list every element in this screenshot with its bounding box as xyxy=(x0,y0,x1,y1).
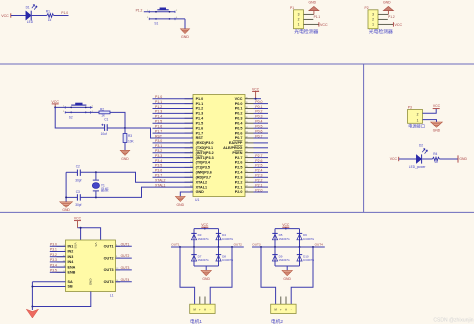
svg-text:P1.2: P1.2 xyxy=(155,105,162,109)
svg-text:U1: U1 xyxy=(195,198,199,202)
power port GND (power LED) xyxy=(458,155,467,162)
resistor R2 1k xyxy=(99,107,110,117)
svg-text:1N4007G: 1N4007G xyxy=(279,237,290,241)
node mid rail junctions xyxy=(179,246,233,248)
svg-text:P3.1: P3.1 xyxy=(50,248,57,252)
svg-text:P0.0: P0.0 xyxy=(235,102,243,106)
svg-text:P3.5: P3.5 xyxy=(50,269,57,273)
svg-text:IN4: IN4 xyxy=(68,260,75,264)
svg-text:P1.2: P1.2 xyxy=(388,15,395,19)
svg-text:电源接口: 电源接口 xyxy=(408,122,425,129)
svg-text:-: - xyxy=(291,309,292,312)
svg-text:ENA: ENA xyxy=(68,265,76,269)
connector P3 (power input, 2-pin) xyxy=(408,106,423,124)
node VSS junction xyxy=(80,227,82,229)
svg-text:VCC: VCC xyxy=(252,87,260,91)
svg-text:(T0)P3.4: (T0)P3.4 xyxy=(196,161,211,165)
svg-text:1: 1 xyxy=(417,119,419,123)
wire P3 pin2 to VCC xyxy=(423,109,437,114)
resistor R1 1k xyxy=(46,9,54,22)
power port GND (P2 pin3, arrow up) xyxy=(383,1,393,15)
wire bottom rail to ground xyxy=(286,266,288,270)
svg-text:电机1: 电机1 xyxy=(190,318,202,324)
diode D6 1N4007G xyxy=(297,233,314,241)
diode D4 1N4007G xyxy=(216,233,233,241)
svg-text:SB: SB xyxy=(68,285,73,289)
svg-text:VCC: VCC xyxy=(1,14,9,18)
svg-text:P0.4: P0.4 xyxy=(255,120,262,124)
svg-text:(INT1)P3.3: (INT1)P3.3 xyxy=(196,156,214,160)
svg-text:P3.0: P3.0 xyxy=(50,243,57,247)
svg-text:P2.1: P2.1 xyxy=(255,183,262,187)
wire left rail to C3 xyxy=(66,196,77,198)
svg-text:P1.6: P1.6 xyxy=(155,125,162,129)
diode D3 1N4007G xyxy=(191,233,208,241)
wire junction to RST pin xyxy=(125,128,193,138)
svg-text:(RD)P3.7: (RD)P3.7 xyxy=(196,176,211,180)
node RST junction xyxy=(124,127,126,129)
svg-text:P2.0: P2.0 xyxy=(235,190,243,194)
ground GND (crystal) xyxy=(60,202,73,212)
node crystal top junction xyxy=(95,171,97,173)
svg-text:光电检测器: 光电检测器 xyxy=(369,28,393,35)
svg-text:VSS: VSS xyxy=(74,243,78,249)
svg-text:GND: GND xyxy=(309,1,317,5)
svg-text:P3: P3 xyxy=(408,106,412,110)
svg-text:P1.7: P1.7 xyxy=(196,131,204,135)
svg-text:D2: D2 xyxy=(419,144,423,148)
svg-text:P0.3: P0.3 xyxy=(235,117,243,121)
diode D9 1N4007G xyxy=(272,254,289,262)
svg-text:P2.2: P2.2 xyxy=(235,180,243,184)
diode D5 1N4007G xyxy=(272,233,289,241)
wire C1 to RC junction xyxy=(108,127,126,129)
svg-text:P2.2: P2.2 xyxy=(255,179,262,183)
power port VCC (P3) xyxy=(433,104,441,108)
svg-text:P0.6: P0.6 xyxy=(235,131,243,135)
wire R4 to GND port xyxy=(439,158,458,160)
wire VCC to D1 anode xyxy=(11,15,26,17)
svg-text:GND: GND xyxy=(433,128,441,132)
svg-text:SA: SA xyxy=(68,280,73,284)
power port VCC (motor2 bridge) xyxy=(282,223,290,229)
wire P1.2 to S1 pin1 row xyxy=(144,11,175,13)
svg-text:D7: D7 xyxy=(198,254,202,258)
svg-text:ALE/PROG: ALE/PROG xyxy=(223,146,242,150)
svg-text:VCC: VCC xyxy=(235,97,243,101)
wire OUT2 down to motor connector xyxy=(210,247,232,304)
svg-text:IN3: IN3 xyxy=(68,255,74,259)
svg-text:P2.7: P2.7 xyxy=(235,156,243,160)
wire VCC to VS/VSS pins xyxy=(78,228,101,240)
node SB junction xyxy=(31,286,33,288)
svg-text:VCC: VCC xyxy=(74,217,82,221)
svg-text:P0.3: P0.3 xyxy=(255,115,262,119)
power port VCC (L298) xyxy=(74,217,82,228)
svg-text:P3.4: P3.4 xyxy=(50,263,57,267)
svg-text:P1.1: P1.1 xyxy=(196,102,204,106)
svg-text:P2.6: P2.6 xyxy=(255,159,262,163)
svg-text:P1.4: P1.4 xyxy=(196,117,205,121)
svg-text:30pf: 30pf xyxy=(75,203,81,207)
svg-text:VCC: VCC xyxy=(201,223,209,227)
svg-text:P0.1: P0.1 xyxy=(255,105,262,109)
L1 output pin stubs xyxy=(116,246,121,281)
svg-text:OUT3: OUT3 xyxy=(252,243,261,247)
wire L1 GND pin down xyxy=(32,292,90,307)
connector P2 (3-pin header) xyxy=(365,6,394,29)
diode D10 1N4007G xyxy=(297,254,314,262)
svg-text:D10: D10 xyxy=(303,254,309,258)
svg-text:PSEN: PSEN xyxy=(232,151,242,155)
ic U1 AT89C51 MCU body xyxy=(193,95,245,203)
SECTION-DIVIDERS xyxy=(0,64,474,212)
svg-text:C3: C3 xyxy=(76,190,80,194)
svg-text:P0.5: P0.5 xyxy=(255,125,262,129)
svg-text:OUT4: OUT4 xyxy=(315,243,324,247)
L1 output pin numbers xyxy=(116,244,119,282)
svg-text:VS: VS xyxy=(94,243,98,247)
svg-text:L1: L1 xyxy=(110,294,114,298)
svg-text:VCC: VCC xyxy=(282,223,290,227)
svg-text:OUT4: OUT4 xyxy=(121,278,130,282)
wire VCC to D2 xyxy=(399,158,416,160)
wire C2 to XTAL2 xyxy=(81,172,193,182)
svg-text:GND: GND xyxy=(459,157,467,161)
svg-text:P2.5: P2.5 xyxy=(255,164,262,168)
svg-text:D6: D6 xyxy=(303,233,307,237)
U1 right net wires xyxy=(254,99,269,192)
power port VCC (U1 pin40) xyxy=(252,87,260,99)
capacitor C3 30pf xyxy=(75,190,81,207)
svg-text:EA/VPP: EA/VPP xyxy=(229,141,243,145)
svg-text:-: - xyxy=(210,309,211,312)
svg-text:10uf: 10uf xyxy=(101,132,107,136)
node rail-C3 junction xyxy=(65,196,67,198)
svg-text:CSDN @zhixunjin: CSDN @zhixunjin xyxy=(433,318,473,324)
svg-text:1N4007G: 1N4007G xyxy=(222,237,233,241)
resistor R4 1k xyxy=(433,152,440,164)
svg-text:2: 2 xyxy=(372,18,374,22)
wire right branch xyxy=(299,229,301,247)
capacitor C2 30pf xyxy=(75,164,81,182)
power port VCC (P2 pin1) xyxy=(393,22,402,27)
svg-text:OUT2: OUT2 xyxy=(104,256,114,260)
svg-text:P3.3: P3.3 xyxy=(155,154,162,158)
wire right branch lower xyxy=(299,247,301,266)
svg-text:OUT4: OUT4 xyxy=(104,280,115,284)
svg-text:(INT0)P3.2: (INT0)P3.2 xyxy=(196,151,214,155)
svg-text:P1.1: P1.1 xyxy=(314,15,321,19)
svg-text:P0.2: P0.2 xyxy=(235,112,243,116)
svg-text:S1: S1 xyxy=(154,21,158,25)
svg-text:3: 3 xyxy=(372,13,374,17)
wire bottom rail to ground xyxy=(205,266,207,270)
svg-text:P2.4: P2.4 xyxy=(255,169,262,173)
svg-text:P3.5: P3.5 xyxy=(155,164,162,168)
svg-text:P3.2: P3.2 xyxy=(155,149,162,153)
svg-text:P3.4: P3.4 xyxy=(155,159,162,163)
diode D7 1N4007G xyxy=(191,254,208,262)
svg-text:P3.0: P3.0 xyxy=(155,139,162,143)
ground GND (motor2 bridge) xyxy=(282,270,292,280)
svg-text:GND: GND xyxy=(62,208,70,212)
svg-text:C1: C1 xyxy=(104,118,108,122)
wire bridge top rail xyxy=(194,228,219,230)
svg-text:P0.6: P0.6 xyxy=(255,129,262,133)
svg-text:P1.5: P1.5 xyxy=(196,121,204,125)
svg-text:GND: GND xyxy=(202,277,210,281)
svg-text:OUT3: OUT3 xyxy=(104,268,114,272)
wire SB to sense loop xyxy=(32,286,65,288)
svg-text:GND: GND xyxy=(121,157,129,161)
svg-text:VCC: VCC xyxy=(395,23,403,27)
connector P1 (3-pin header) xyxy=(290,6,319,29)
wire R1 to net P1.0 xyxy=(54,15,69,17)
svg-text:P1.5: P1.5 xyxy=(155,120,162,124)
svg-text:P0.0: P0.0 xyxy=(255,100,262,104)
power port GND (P1 pin3, arrow up) xyxy=(309,1,319,15)
svg-text:OUT2: OUT2 xyxy=(234,243,243,247)
L1 input pin numbers xyxy=(63,245,66,273)
svg-text:GND: GND xyxy=(89,279,93,287)
svg-text:P3.3: P3.3 xyxy=(50,258,57,262)
L1 output net wires xyxy=(116,246,132,281)
wire mid rail OUT3-OUT4 xyxy=(252,246,325,248)
ground GND (reset) xyxy=(120,150,130,161)
wire OUT3 down to motor connector xyxy=(261,247,276,304)
wire SA to sense loop xyxy=(32,281,65,283)
svg-text:LED_power: LED_power xyxy=(409,165,427,169)
svg-text:R4: R4 xyxy=(433,152,437,156)
wire S1 to GND xyxy=(184,19,186,29)
svg-text:P1.4: P1.4 xyxy=(155,115,162,119)
svg-text:1k: 1k xyxy=(434,160,438,164)
wire left branch xyxy=(274,229,276,247)
crystal Y1 xyxy=(92,172,108,197)
svg-text:P2.0: P2.0 xyxy=(255,188,262,192)
svg-text:(T1)P3.5: (T1)P3.5 xyxy=(196,166,210,170)
wire left branch lower xyxy=(274,247,276,266)
wire right branch lower xyxy=(218,247,220,266)
U1 right pin stubs with pin numbers 21-40 xyxy=(245,97,254,192)
wire bridge bottom rail xyxy=(275,265,300,267)
svg-text:2: 2 xyxy=(417,113,419,117)
svg-text:D1: D1 xyxy=(26,5,30,9)
svg-text:1: 1 xyxy=(298,23,300,27)
svg-text:S2: S2 xyxy=(69,115,73,119)
L1 input net wires xyxy=(50,246,66,272)
svg-text:3: 3 xyxy=(298,13,300,17)
U1 left net wires xyxy=(153,99,194,178)
wire bridge bottom rail xyxy=(194,265,219,267)
svg-text:D8: D8 xyxy=(222,254,226,258)
wire OUT1 down to motor connector xyxy=(180,247,195,304)
svg-text:P0.2: P0.2 xyxy=(255,110,262,114)
svg-text:IN1: IN1 xyxy=(68,245,74,249)
svg-text:晶振: 晶振 xyxy=(101,186,109,192)
node GND loop junction xyxy=(31,306,33,308)
diode D8 1N4007G xyxy=(216,254,233,262)
svg-text:P1.0: P1.0 xyxy=(196,97,204,101)
svg-text:VCC: VCC xyxy=(320,23,328,27)
LED D2 LED_power xyxy=(409,144,428,169)
power port VCC (motor1 bridge) xyxy=(201,223,209,229)
wire U1 GND pin to ground xyxy=(180,192,193,196)
power port VCC (top-left) xyxy=(1,13,11,18)
svg-text:P0.7: P0.7 xyxy=(235,136,243,140)
svg-text:电机2: 电机2 xyxy=(271,318,283,324)
wire VCC to S2 top row xyxy=(55,106,92,108)
wire R3 to ground xyxy=(124,143,126,151)
svg-text:P0.5: P0.5 xyxy=(235,126,243,130)
wire left rail to C2 xyxy=(66,171,77,173)
U1 left net labels P1.x / RST / P3.x / XTAL xyxy=(155,95,165,187)
wire crystal left ground rail xyxy=(65,172,67,202)
svg-text:1N4007G: 1N4007G xyxy=(198,258,209,262)
power port VCC (reset circuit) xyxy=(51,100,59,108)
U1 left pin stubs with pin numbers 1-20 xyxy=(185,97,194,192)
svg-text:D4: D4 xyxy=(222,233,226,237)
svg-text:P0.1: P0.1 xyxy=(235,107,243,111)
wire bridge top rail xyxy=(275,228,300,230)
svg-text:(RXD)P3.0: (RXD)P3.0 xyxy=(196,141,214,145)
svg-text:LED: LED xyxy=(27,20,34,24)
svg-text:1: 1 xyxy=(372,23,374,27)
svg-text:D9: D9 xyxy=(279,254,283,258)
svg-text:GND: GND xyxy=(196,190,205,194)
svg-text:P3.2: P3.2 xyxy=(50,253,57,257)
svg-text:VCC: VCC xyxy=(433,104,441,108)
wire S1 pin3-4 row xyxy=(149,18,185,20)
svg-text:1k: 1k xyxy=(48,18,52,22)
ground GND (motor1 bridge) xyxy=(201,270,211,280)
power port VCC (P1 pin1) xyxy=(319,22,328,27)
svg-text:VCC: VCC xyxy=(390,157,398,161)
push button S2 xyxy=(63,103,94,120)
svg-text:P2.3: P2.3 xyxy=(255,174,262,178)
ground GND (S1) xyxy=(180,29,189,39)
svg-text:GND: GND xyxy=(181,35,189,39)
svg-text:1N4007G: 1N4007G xyxy=(279,258,290,262)
svg-text:P1.2: P1.2 xyxy=(196,107,204,111)
ground GND (P3) xyxy=(431,122,443,132)
svg-text:OUT1: OUT1 xyxy=(171,243,180,247)
wire left branch lower xyxy=(193,247,195,266)
ic L1 L298 motor driver body xyxy=(66,240,116,298)
svg-text:1N4007G: 1N4007G xyxy=(198,237,209,241)
node VCC junction xyxy=(54,106,56,108)
svg-text:GND: GND xyxy=(283,277,291,281)
svg-text:P1.6: P1.6 xyxy=(196,126,204,130)
svg-text:(TXD)P3.1: (TXD)P3.1 xyxy=(196,146,213,150)
wire left branch xyxy=(193,229,195,247)
svg-text:P2.6: P2.6 xyxy=(235,161,243,165)
wire sense loop vertical xyxy=(31,282,33,307)
wire D2 to R4 xyxy=(422,158,432,160)
svg-text:VCC: VCC xyxy=(51,100,59,104)
svg-text:XTAL2: XTAL2 xyxy=(196,180,207,184)
svg-text:OUT2: OUT2 xyxy=(121,254,130,258)
svg-text:P2.7: P2.7 xyxy=(255,154,262,158)
svg-text:P1.0: P1.0 xyxy=(61,11,68,15)
svg-text:P0.7: P0.7 xyxy=(255,134,262,138)
svg-text:P1.3: P1.3 xyxy=(155,110,162,114)
svg-text:P1.1: P1.1 xyxy=(155,100,162,104)
svg-text:OUT1: OUT1 xyxy=(104,245,114,249)
svg-text:P2: P2 xyxy=(365,6,369,10)
svg-text:P2.4: P2.4 xyxy=(235,171,244,175)
svg-text:OUT3: OUT3 xyxy=(121,266,130,270)
svg-text:光电检测器: 光电检测器 xyxy=(294,28,318,35)
svg-text:R3: R3 xyxy=(128,134,132,138)
svg-text:10K: 10K xyxy=(128,139,135,143)
ground GND (U1 pin20) xyxy=(175,196,185,207)
U1 right net labels P0.x / P2.x xyxy=(255,100,262,192)
svg-text:30pf: 30pf xyxy=(75,178,81,182)
LED D1 xyxy=(26,5,37,25)
svg-text:P1.3: P1.3 xyxy=(196,112,204,116)
svg-text:P1.0: P1.0 xyxy=(155,95,162,99)
node crystal bottom junction xyxy=(95,196,97,198)
net labels L1 inputs xyxy=(50,243,57,273)
svg-text:R2: R2 xyxy=(100,107,104,111)
wire R2 to RC junction xyxy=(110,112,125,128)
svg-text:A: A xyxy=(204,308,206,312)
svg-text:P2.5: P2.5 xyxy=(235,166,243,170)
resistor R3 10K xyxy=(123,128,134,143)
wire S2 bottom row to R2 xyxy=(65,111,99,113)
svg-text:P3.1: P3.1 xyxy=(155,144,162,148)
svg-text:P1.7: P1.7 xyxy=(155,129,162,133)
svg-text:XTAL1: XTAL1 xyxy=(196,185,207,189)
svg-text:P2.1: P2.1 xyxy=(235,185,243,189)
svg-text:P3.7: P3.7 xyxy=(155,174,162,178)
svg-text:P1: P1 xyxy=(290,6,294,10)
svg-text:C2: C2 xyxy=(76,164,80,168)
svg-text:P3.6: P3.6 xyxy=(155,169,162,173)
power port GND (L298, arrow down) xyxy=(26,307,38,319)
svg-text:GND: GND xyxy=(177,203,185,207)
svg-text:2: 2 xyxy=(298,18,300,22)
svg-text:OUT1: OUT1 xyxy=(121,242,130,246)
svg-text:ENB: ENB xyxy=(68,271,76,275)
wire right branch xyxy=(218,229,220,247)
wire OUT4 down to motor connector xyxy=(291,247,313,304)
svg-text:IN2: IN2 xyxy=(68,250,74,254)
push button S1 xyxy=(147,8,178,26)
wire D1 cathode to R1 xyxy=(32,15,47,17)
svg-text:P2.3: P2.3 xyxy=(235,176,243,180)
wire VCC branch down to C1 xyxy=(55,107,104,128)
wire mid rail OUT1-OUT2 xyxy=(171,246,244,248)
svg-text:R1: R1 xyxy=(46,9,50,13)
svg-text:D5: D5 xyxy=(279,233,283,237)
capacitor C1 10uf xyxy=(101,118,109,136)
svg-text:(WR)P3.6: (WR)P3.6 xyxy=(196,171,212,175)
connector motor2 (motor header) xyxy=(271,297,296,314)
svg-text:P0.4: P0.4 xyxy=(235,121,244,125)
svg-text:GND: GND xyxy=(383,1,391,5)
svg-text:D3: D3 xyxy=(198,233,202,237)
wire P3 pin1 to GND xyxy=(423,120,437,122)
svg-text:RST: RST xyxy=(196,136,204,140)
svg-text:P1.2: P1.2 xyxy=(136,9,143,13)
node mid rail junctions xyxy=(260,246,314,248)
svg-text:A: A xyxy=(285,308,287,312)
L1 input pin stubs xyxy=(57,246,66,272)
connector motor1 (motor header) xyxy=(190,297,215,314)
